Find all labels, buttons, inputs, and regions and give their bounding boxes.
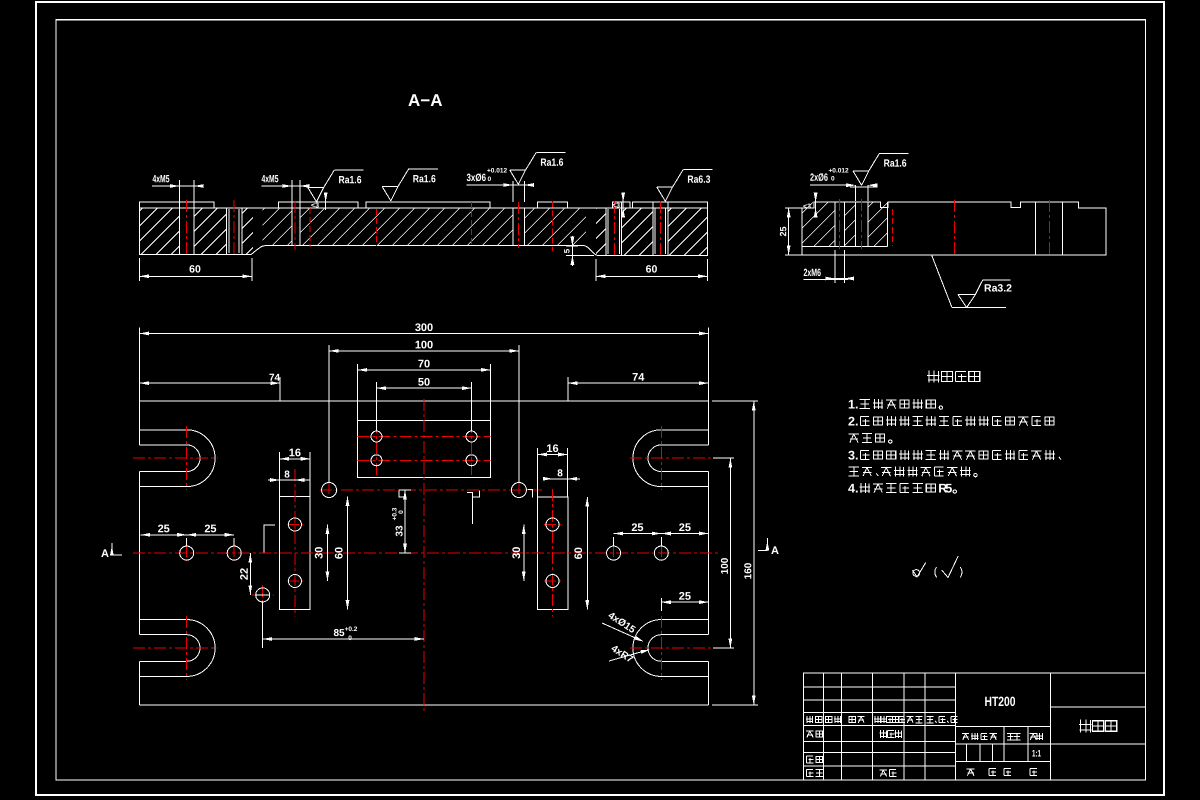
svg-text:4xM5: 4xM5	[152, 173, 169, 185]
svg-text:25: 25	[679, 522, 691, 534]
svg-text:<3: <3	[311, 203, 319, 210]
svg-text:2xM6: 2xM6	[803, 267, 821, 279]
svg-text:0: 0	[398, 510, 405, 514]
svg-text:5: 5	[945, 482, 952, 496]
svg-text:HT200: HT200	[984, 694, 1015, 709]
svg-text:1:1: 1:1	[1032, 748, 1041, 759]
side section view	[754, 153, 1106, 307]
svg-text:100: 100	[720, 557, 731, 574]
section title A-A	[408, 91, 442, 110]
svg-text:33: 33	[394, 525, 405, 537]
svg-text:25: 25	[778, 226, 788, 236]
svg-text:16: 16	[546, 443, 558, 455]
svg-text:0: 0	[348, 635, 352, 642]
svg-text:+0.012: +0.012	[828, 168, 848, 175]
svg-text:.: .	[855, 398, 859, 412]
section view A-A	[96, 152, 746, 281]
svg-text:.: .	[855, 482, 859, 496]
svg-text:Ra1.6: Ra1.6	[338, 174, 361, 186]
title block	[803, 673, 1145, 780]
svg-text:0: 0	[831, 176, 835, 183]
svg-text:100: 100	[415, 339, 433, 351]
svg-text:16: 16	[289, 447, 301, 459]
svg-text:<3: <3	[612, 203, 620, 210]
svg-text:2: 2	[848, 415, 855, 429]
svg-text:+0.012: +0.012	[487, 168, 507, 175]
svg-text:74: 74	[269, 373, 281, 384]
svg-text:8: 8	[557, 468, 563, 479]
svg-text:+0.2: +0.2	[345, 626, 358, 633]
svg-text:70: 70	[418, 358, 430, 370]
svg-text:A−A: A−A	[408, 91, 442, 110]
svg-text:Ra3.2: Ra3.2	[984, 283, 1012, 295]
svg-text:Ra1.6: Ra1.6	[540, 157, 563, 169]
svg-text:60: 60	[333, 547, 345, 559]
svg-text:4xM5: 4xM5	[261, 173, 278, 185]
svg-text:25: 25	[631, 522, 643, 534]
svg-text:160: 160	[743, 562, 754, 579]
svg-text:1: 1	[848, 398, 855, 412]
svg-text:5: 5	[562, 248, 571, 253]
svg-text:Ra6.3: Ra6.3	[687, 174, 710, 186]
svg-text:0: 0	[487, 176, 491, 183]
svg-text:3xØ6: 3xØ6	[466, 172, 486, 184]
svg-text:.: .	[855, 415, 859, 429]
svg-text:<3: <3	[803, 204, 811, 211]
svg-text:A: A	[771, 545, 779, 557]
svg-text:25: 25	[679, 591, 691, 603]
svg-text:2xØ6: 2xØ6	[810, 172, 828, 184]
svg-text:25: 25	[158, 523, 170, 535]
svg-text:.: .	[855, 449, 859, 463]
svg-text:30: 30	[313, 547, 325, 559]
plan view	[101, 322, 779, 711]
technical requirements text	[848, 370, 1061, 495]
svg-text:85: 85	[333, 628, 345, 639]
svg-text:300: 300	[415, 322, 433, 334]
svg-text:A: A	[101, 548, 109, 560]
svg-text:60: 60	[189, 263, 201, 275]
svg-text:22: 22	[239, 568, 251, 580]
svg-text:25: 25	[204, 523, 216, 535]
svg-text:Ra1.6: Ra1.6	[884, 158, 907, 170]
svg-text:4: 4	[848, 482, 855, 496]
svg-text:Ra1.6: Ra1.6	[413, 173, 436, 185]
svg-text:50: 50	[418, 377, 430, 389]
svg-text:8: 8	[284, 469, 290, 480]
svg-text:74: 74	[632, 372, 645, 384]
svg-text:3: 3	[848, 449, 855, 463]
surface finish check marks	[913, 556, 963, 578]
svg-text:30: 30	[511, 547, 523, 559]
svg-text:60: 60	[646, 263, 658, 275]
svg-text:60: 60	[573, 547, 585, 559]
